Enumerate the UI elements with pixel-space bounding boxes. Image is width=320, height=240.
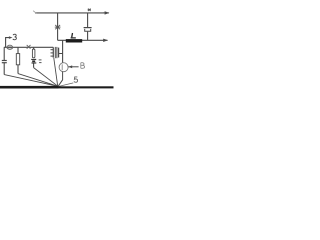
- label L: [71, 33, 76, 38]
- transformer T1 core: [54, 47, 56, 58]
- wire top-rail left end tick: [33, 11, 36, 14]
- arrow mid rail output: [103, 39, 108, 42]
- terminal 3 bracket: [6, 38, 10, 48]
- wire capacitor to mid rail: [87, 32, 89, 41]
- resistor R1 branch: wire down: [17, 47, 19, 53]
- arrow terminal 3: [9, 36, 13, 39]
- wire R1 diagonal to ground point: [18, 74, 58, 87]
- transistor V1 (circle): [59, 63, 68, 72]
- capacitor C1 plates: [2, 60, 7, 62]
- wire transistor emitter down: [58, 72, 62, 87]
- wire C1 diagonal to ground point: [4, 75, 58, 87]
- capacitor C (cup plate): [85, 29, 91, 31]
- capacitor C (polarized, top plate): [84, 27, 92, 29]
- arrow top rail output: [103, 12, 109, 14]
- wire vertical from top rail at x=87.6: [87, 13, 89, 27]
- wire callout line for 5: [59, 83, 74, 87]
- wire left rail: [4, 46, 53, 48]
- transistor base bar: [61, 64, 63, 70]
- fuse (ellipse on wire): [7, 45, 13, 49]
- ground bus bar: [0, 86, 59, 89]
- wire mid rail: [58, 39, 104, 41]
- label 5 with callout: [74, 77, 78, 82]
- wire diagonal to ground point: [34, 68, 58, 87]
- label 3: [13, 34, 17, 40]
- resistor R2 branch (narrow loop): [33, 47, 35, 49]
- wire base lead with arrow to label B: [68, 66, 78, 68]
- trimmer capacitor below R2: [31, 58, 36, 60]
- wire tap to transistor column: [59, 53, 63, 55]
- wire vertical from top rail at x=57.6: [57, 13, 59, 40]
- inductor L (solid bar): [66, 39, 82, 42]
- wire top rail: [35, 12, 105, 14]
- lamp/variable star symbol on wire: [55, 25, 61, 29]
- label B: [81, 63, 85, 69]
- wire vertical x=62.6 mid rail to transistor: [62, 40, 64, 63]
- resistor R1 body: [16, 54, 19, 65]
- transformer T1 right winding: [58, 48, 60, 58]
- wire C1 down: [3, 63, 5, 75]
- node a (asterisk label above top rail): [88, 9, 91, 11]
- transformer T1 left winding: [52, 47, 54, 57]
- wire R1 down: [17, 65, 19, 74]
- wire transformer bottom to ground point: [54, 58, 58, 86]
- polarity dashes: [39, 59, 42, 61]
- wire down from trimmer: [33, 64, 35, 68]
- capacitor C1 branch: wire down: [3, 47, 5, 60]
- switch x symbol on left rail: [27, 45, 31, 49]
